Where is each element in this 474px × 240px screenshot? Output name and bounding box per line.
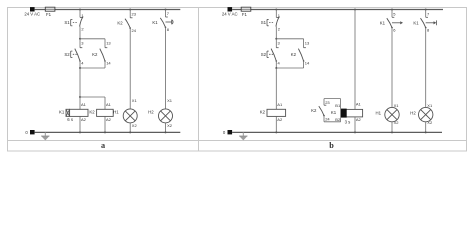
circuit a: +24V terminal: [30, 7, 35, 11]
svg-text:X1: X1: [427, 103, 433, 108]
K1 delayed contact label (a): [152, 20, 158, 25]
svg-text:b: b: [329, 141, 334, 150]
circuit a: 0 label: [25, 130, 28, 135]
svg-text:X1: X1: [167, 98, 173, 103]
pin 4 (S2): [81, 60, 84, 65]
H1 lamp label (b): [376, 111, 382, 116]
wire: K2 coil A2 to bottom rail (b): [275, 116, 277, 132]
svg-text:6 s: 6 s: [67, 117, 73, 122]
pin A1 (K1 b): [356, 101, 362, 106]
S2 actuator label: [64, 51, 77, 57]
svg-text:H1: H1: [376, 111, 382, 116]
pin B2 (K1 control): [335, 117, 341, 122]
wire: S2 to rejoin: [79, 61, 81, 68]
junction: H2 on bottom rail: [165, 131, 167, 133]
circuit b: 0V terminal: [228, 130, 233, 134]
junction: rejoin node: [79, 67, 81, 69]
svg-text:H2: H2: [148, 110, 154, 115]
H2 lamp label (b): [410, 111, 416, 116]
circuit b: 24 V AC label: [222, 11, 238, 16]
K2 control contact label: [311, 108, 317, 113]
svg-text:23: 23: [325, 100, 330, 105]
wire: S1 to parallel split: [79, 26, 81, 38]
svg-text:A2: A2: [356, 117, 362, 122]
K2 contact label (latch b): [291, 52, 297, 57]
pin 23 (K2 control contact): [325, 100, 330, 105]
junction: split node (b): [275, 38, 277, 40]
svg-text:K2: K2: [311, 108, 317, 113]
svg-text:K2: K2: [260, 110, 266, 115]
wire: K2 coil A2 to bottom rail: [104, 116, 106, 132]
svg-text:K1: K1: [380, 21, 386, 26]
wire: lamp H2 to bottom rail: [165, 123, 167, 132]
svg-text:3 s: 3 s: [345, 120, 351, 125]
svg-text:X2: X2: [394, 120, 400, 125]
wire: S2 to rejoin (b): [275, 61, 277, 68]
svg-text:24: 24: [132, 28, 137, 33]
pin 13 (K2 aux contact): [106, 41, 111, 46]
junction: split node: [79, 38, 81, 40]
svg-text:5: 5: [393, 11, 396, 16]
junction: H1 on bottom rail (b): [391, 131, 393, 133]
junction: coil split node: [79, 96, 81, 98]
wire: S1 to parallel split (b): [275, 26, 277, 38]
ground (a): [41, 132, 49, 140]
svg-text:7: 7: [167, 11, 170, 16]
ground (b): [239, 132, 247, 140]
pin 6 (K1 off-delay contact): [393, 27, 396, 32]
junction: lamp H2 branch on top rail: [425, 9, 427, 11]
S2 actuator label (b): [261, 51, 274, 57]
wire: K2 contact to rejoin (b): [303, 61, 305, 68]
svg-text:6: 6: [393, 27, 396, 32]
svg-text:S2: S2: [64, 52, 70, 57]
pin X2 (H2 a): [167, 123, 173, 128]
junction: K2 coil on bottom rail: [104, 131, 106, 133]
svg-text:13: 13: [305, 41, 310, 46]
junction: K1 coil on bottom rail (b): [354, 131, 356, 133]
timer relay K1 (off-delay) coil body: [341, 109, 363, 118]
svg-text:K1: K1: [59, 110, 65, 115]
svg-text:24 V AC: 24 V AC: [24, 11, 40, 16]
svg-text:K2: K2: [92, 52, 98, 57]
wire: rejoin horizontal: [80, 67, 105, 69]
svg-text:B2: B2: [335, 117, 341, 122]
indicator lamp H2 (b): [419, 107, 433, 121]
pin A1 (K1): [81, 102, 87, 107]
svg-text:14: 14: [305, 60, 310, 65]
svg-text:4: 4: [278, 60, 281, 65]
wire: split to K2 coil A1: [104, 97, 106, 109]
K2 coil label: [89, 110, 95, 115]
svg-text:X1: X1: [394, 103, 400, 108]
wire: split to S2: [79, 39, 81, 48]
svg-text:A2: A2: [81, 117, 87, 122]
wire: top rail down to K1 coil A1: [354, 10, 356, 110]
wire: loop down to contact 23: [323, 99, 325, 106]
svg-text:13: 13: [106, 41, 111, 46]
wire: top rail to K1 contact: [165, 10, 167, 18]
junction: branch 1 on top rail (a): [79, 9, 81, 11]
junction: lamp H1 branch on top rail: [391, 9, 393, 11]
junction: K1 supply branch on top rail: [354, 9, 356, 11]
pin A1 (K2 b): [277, 102, 283, 107]
wire: B1 loop top horizontal: [324, 98, 341, 100]
pin 5 (K1 off-delay contact): [393, 11, 396, 16]
wire: lamp H2 to bottom rail (b): [425, 122, 427, 133]
wire: contact 6 down to lamp H1 (b): [391, 28, 393, 108]
svg-text:24 V AC: 24 V AC: [222, 11, 238, 16]
pin A1 (K2): [106, 102, 112, 107]
pin A2 (K2): [106, 117, 112, 122]
svg-text:X2: X2: [167, 123, 173, 128]
relay contact K2 13/14 (NO): [100, 48, 108, 62]
pin B1 (K1 control): [335, 103, 341, 108]
svg-text:A2: A2: [277, 117, 283, 122]
svg-text:4: 4: [81, 60, 84, 65]
wire: split to S2 (b): [275, 39, 277, 48]
wire: top rail to K1 contact 7: [425, 10, 427, 18]
pin X1 (H1 a): [132, 98, 138, 103]
wire: K2 contact to rejoin: [104, 61, 106, 68]
pin X2 (H2 b): [427, 120, 433, 125]
pin 14 (K2 aux b): [305, 60, 310, 65]
svg-text:S1: S1: [64, 20, 70, 25]
pin X1 (H2 b): [427, 103, 433, 108]
wire: K1 contact down to lamp H2: [165, 27, 167, 109]
timer relay coil K1 (on-delay): [66, 109, 88, 116]
pin 3 (S2): [81, 41, 84, 46]
wire: split horizontal (b): [276, 38, 303, 40]
H2 lamp label (a): [148, 110, 154, 115]
wire: rejoin down to K2 coil (b): [275, 68, 277, 109]
svg-text:S1: S1: [261, 20, 267, 25]
S1 actuator label (b): [261, 19, 274, 25]
wire: a top rail to S1: [79, 10, 81, 18]
K1 off-delay contact label (H2 branch): [413, 21, 419, 26]
circuit a: 0V terminal: [30, 130, 35, 134]
svg-text:X1: X1: [132, 98, 138, 103]
pin 8 (K1 off-delay contact b): [427, 27, 430, 32]
pin 23 (K2): [132, 12, 137, 17]
junction: branch 1 on top rail (b): [275, 9, 277, 11]
svg-text:A1: A1: [356, 101, 362, 106]
junction: branch 2 on top rail: [129, 9, 131, 11]
wire: split horizontal: [80, 38, 105, 40]
pushbutton S1 (NC) contact (b): [276, 17, 280, 27]
fuse F1 label (b): [242, 12, 248, 17]
pushbutton S2 (NO) contact: [75, 48, 83, 62]
indicator lamp H1 (a): [123, 109, 137, 123]
wire: B2 stub up to coil: [340, 118, 342, 122]
circuit b: bottom supply rail: [232, 131, 442, 133]
svg-text:3: 3: [278, 41, 281, 46]
pushbutton S1 (NC) contact: [80, 17, 84, 27]
wire: K2 contact 24 down to lamp H1: [129, 28, 131, 109]
circuit a: top supply rail: [35, 9, 181, 11]
wire: top rail to K1 contact 5: [391, 10, 393, 18]
wire: lamp H1 to bottom rail (b): [391, 122, 393, 133]
svg-text:F1: F1: [46, 12, 52, 17]
circuit b: 0 label: [223, 130, 226, 135]
junction: rejoin node (b): [275, 67, 277, 69]
wire: contact 24 down: [323, 116, 325, 122]
pin 14 (K2 aux contact): [106, 60, 111, 65]
svg-text:K2: K2: [89, 110, 95, 115]
svg-text:2: 2: [81, 27, 84, 32]
svg-text:14: 14: [106, 60, 111, 65]
pin 3 (S2 b): [278, 41, 281, 46]
pin 2 (S1 b): [278, 27, 281, 32]
pushbutton S2 (NO) contact (b): [271, 48, 279, 62]
wire: split to K2 contact: [104, 39, 106, 48]
fuse F1 label (a): [46, 12, 52, 17]
svg-text:K2: K2: [117, 20, 123, 25]
pin X1 (H1 b): [394, 103, 400, 108]
wire: lamp H1 to bottom rail: [129, 123, 131, 132]
wire: rejoin horizontal (b): [276, 67, 303, 69]
pin 24 (K2 control contact): [325, 116, 330, 121]
svg-text:H1: H1: [113, 110, 119, 115]
circuit b: +24V terminal: [228, 7, 233, 11]
K1 delay value 6 s: [67, 117, 73, 122]
svg-text:0: 0: [25, 130, 28, 135]
wire: split to K2 contact (b): [303, 39, 305, 48]
timer contact K1 7/8 (NO, delayed closing): [160, 17, 173, 28]
svg-text:23: 23: [132, 12, 137, 17]
wire: coil split horizontal: [80, 96, 105, 98]
pin X2 (H1 b): [394, 120, 400, 125]
H1 lamp label (a): [113, 110, 119, 115]
caption a: [101, 141, 105, 150]
indicator lamp H1 (b): [385, 107, 399, 121]
pin X1 (H2 a): [167, 98, 173, 103]
fuse F1 (a): [45, 7, 55, 11]
junction: H2 on bottom rail (b): [425, 131, 427, 133]
svg-text:a: a: [101, 141, 105, 150]
svg-text:K1: K1: [152, 20, 158, 25]
wire: B1 stub up: [340, 99, 342, 109]
K1 coil label: [59, 110, 65, 115]
figure frame: [8, 8, 467, 152]
pin A2 (K2 b): [277, 117, 283, 122]
relay contact K2 23/24 (NO, control input): [319, 105, 327, 116]
svg-text:K1: K1: [331, 110, 337, 115]
wire: rejoin down to coil split: [79, 68, 81, 97]
pin A2 (K1): [81, 117, 87, 122]
fuse F1 (b): [241, 7, 251, 11]
svg-text:24: 24: [325, 116, 330, 121]
pin 1 (S1 b): [278, 13, 281, 18]
K2 contact label (lamp branch): [117, 20, 123, 25]
pin 7 (K1 off-delay contact b): [427, 11, 430, 16]
wire: K1 coil A2 to bottom rail (b): [354, 117, 356, 132]
circuit b: top supply rail: [232, 9, 443, 11]
svg-text:8: 8: [167, 27, 170, 32]
svg-text:H2: H2: [410, 111, 416, 116]
circuit a: bottom supply rail: [35, 131, 181, 133]
wire: split to K1 coil A1: [79, 97, 81, 109]
svg-text:X2: X2: [427, 120, 433, 125]
svg-text:2: 2: [278, 27, 281, 32]
pin 1 (S1): [81, 13, 84, 18]
relay coil K2 (b): [267, 109, 286, 116]
K2 coil label (b): [260, 110, 266, 115]
wire: top rail to K2 contact 23: [129, 10, 131, 18]
K1 off-delay contact label (H1 branch): [380, 21, 386, 26]
junction: branch 3 on top rail: [165, 9, 167, 11]
junction: H1 on bottom rail: [129, 131, 131, 133]
pin 24 (K2): [132, 28, 137, 33]
wire: B2 loop bottom horizontal: [324, 121, 341, 123]
K1 coil label (b): [331, 110, 337, 115]
wire: b top rail to S1: [275, 10, 277, 18]
svg-text:8: 8: [427, 27, 430, 32]
pin 4 (S2 b): [278, 60, 281, 65]
S1 actuator label: [64, 19, 77, 25]
pin 7 (K1 delayed contact): [167, 11, 170, 16]
relay contact K2 23/24 (NO): [125, 18, 133, 29]
svg-text:0: 0: [223, 130, 226, 135]
timer contact K1 5/6 (NO, delayed opening): [387, 17, 403, 28]
junction: K2 coil on bottom rail (b): [275, 131, 277, 133]
junction: K1 coil on bottom rail: [79, 131, 81, 133]
pin 13 (K2 aux b): [305, 41, 310, 46]
pin A2 (K1 b): [356, 117, 362, 122]
pin 2 (S1): [81, 27, 84, 32]
svg-text:A1: A1: [277, 102, 283, 107]
pin 8 (K1 delayed contact): [167, 27, 170, 32]
svg-text:K1: K1: [413, 21, 419, 26]
indicator lamp H2 (a): [159, 109, 173, 123]
K2 contact label (latch): [92, 52, 98, 57]
svg-text:3: 3: [81, 41, 84, 46]
svg-text:F1: F1: [242, 12, 248, 17]
svg-text:A2: A2: [106, 117, 112, 122]
wire: K1 coil A2 to bottom rail: [79, 116, 81, 132]
svg-text:A1: A1: [81, 102, 87, 107]
svg-text:K2: K2: [291, 52, 297, 57]
svg-text:A1: A1: [106, 102, 112, 107]
wire: contact 8 down to lamp H2 (b): [425, 28, 427, 108]
caption b: [329, 141, 334, 150]
svg-text:X2: X2: [132, 123, 138, 128]
svg-text:B1: B1: [335, 103, 341, 108]
circuit a: 24 V AC label: [24, 11, 40, 16]
timer contact K1 7/8 (delayed opening, with stop bar): [421, 17, 437, 28]
relay coil K2 (a): [97, 109, 114, 116]
relay contact K2 13/14 (NO) (b): [298, 48, 306, 62]
pin X2 (H1 a): [132, 123, 138, 128]
K1 delay value 3 s: [345, 120, 351, 125]
svg-text:7: 7: [427, 11, 430, 16]
svg-text:S2: S2: [261, 52, 267, 57]
